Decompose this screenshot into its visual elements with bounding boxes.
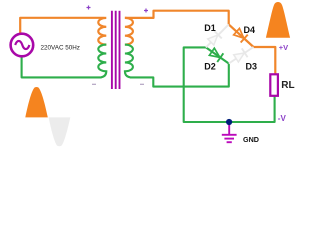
diode D4 symbol (orange) <box>233 28 248 43</box>
junction dot (navy) <box>226 119 232 125</box>
svg-text:D4: D4 <box>244 25 256 35</box>
wire source top to primary top (orange) <box>20 18 104 34</box>
plus mark primary (violet) <box>87 6 91 10</box>
svg-text:RL: RL <box>281 80 294 91</box>
plus mark secondary (violet) <box>144 9 148 13</box>
svg-text:D2: D2 <box>204 62 216 72</box>
svg-text:GND: GND <box>243 135 259 144</box>
diode D3 edge bottom node to right node (gray) <box>229 47 254 64</box>
wire secondary top to bridge top node (orange) <box>125 11 254 47</box>
wire bridge right node to RL top (orange) <box>254 47 276 75</box>
AC source sine symbol <box>15 41 29 49</box>
minus mark primary (gray) <box>92 83 96 85</box>
waveform input sine negative half (gray) <box>49 117 71 146</box>
svg-text:D3: D3 <box>246 62 258 72</box>
svg-text:+V: +V <box>279 43 288 52</box>
ground symbol (magenta) <box>222 122 237 142</box>
svg-text:220VAC 50Hz: 220VAC 50Hz <box>41 45 80 52</box>
load resistor RL (magenta box) <box>270 74 278 96</box>
wire primary bottom to source bottom (green) <box>22 57 102 78</box>
diode D3 symbol (gray) <box>233 48 247 62</box>
transformer primary lower winding (green) <box>98 45 106 78</box>
svg-text:D1: D1 <box>204 23 216 33</box>
transformer core lines (magenta) <box>111 11 113 89</box>
wire secondary bottom to bridge bottom node (green) <box>130 64 229 87</box>
diode D2 symbol (green) <box>209 47 224 62</box>
minus mark secondary (gray) <box>140 83 144 85</box>
AC source circle (magenta) <box>11 34 34 57</box>
transformer secondary upper winding (orange) <box>125 18 133 45</box>
diode D1 edge left node to top node (gray) <box>206 24 229 47</box>
waveform output pulse (orange) <box>266 2 290 38</box>
diode D2 edge bottom node to left node (green) <box>206 47 229 63</box>
transformer primary upper winding (orange) <box>98 18 106 45</box>
wire left node to ground rail to RL bottom (green) <box>184 47 275 122</box>
waveform input sine positive half (orange) <box>25 87 48 117</box>
svg-text:-V: -V <box>278 114 287 123</box>
diode D1 symbol (gray) <box>207 31 222 46</box>
transformer secondary lower winding (green) <box>125 45 133 78</box>
